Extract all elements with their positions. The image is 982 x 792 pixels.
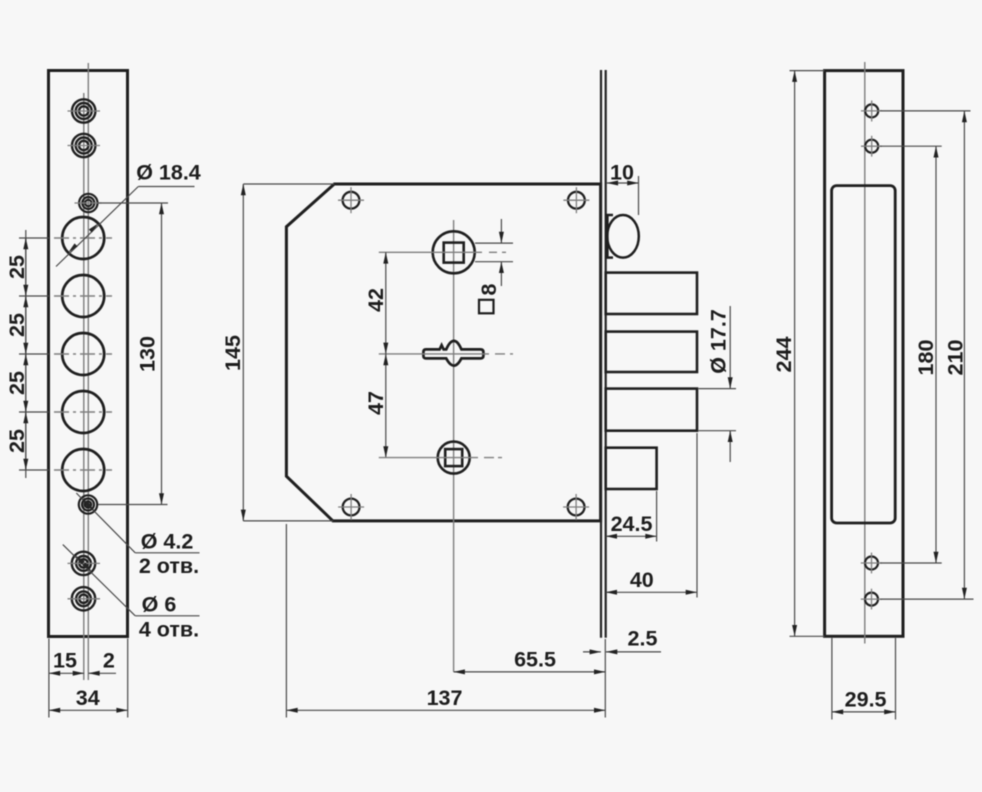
strike hole 1: [865, 104, 878, 117]
svg-text:25: 25: [5, 313, 29, 337]
svg-text:4 отв.: 4 отв.: [139, 618, 199, 642]
dimension 47: [385, 354, 387, 458]
svg-text:25: 25: [5, 371, 29, 395]
faceplate strip (edge view): [600, 70, 602, 638]
corner hole bottom-left: [343, 499, 360, 516]
svg-text:130: 130: [136, 336, 160, 372]
svg-text:Ø 6: Ø 6: [142, 593, 177, 617]
svg-text:25: 25: [5, 429, 29, 453]
dimension 180: [935, 146, 937, 563]
svg-text:2 отв.: 2 отв.: [139, 554, 199, 578]
leader O6: [63, 545, 135, 616]
strike plate outline: [825, 71, 903, 637]
screw hole O6 bottom2: [72, 587, 95, 610]
corner hole top-left: [343, 192, 360, 209]
bolt hole circle 5: [62, 449, 104, 491]
svg-text:137: 137: [427, 686, 463, 710]
square 8 dimension: [475, 242, 513, 244]
dimension 2: [88, 672, 116, 674]
dimension 40: [696, 433, 698, 598]
svg-text:65.5: 65.5: [514, 648, 556, 672]
svg-text:29.5: 29.5: [845, 688, 887, 712]
body vertical centerline: [453, 220, 455, 672]
dimension 130: [98, 202, 168, 204]
centerline A (screw holes axis): [83, 93, 85, 680]
svg-text:25: 25: [5, 255, 29, 279]
dimension 2.5: [604, 639, 606, 718]
strike hole 2: [865, 140, 878, 153]
spindle hole top: circle + square: [433, 231, 475, 273]
centerline B (4.2 holes axis): [87, 63, 89, 680]
svg-text:10: 10: [610, 161, 634, 185]
dimension 42: [385, 252, 387, 354]
svg-text:Ø 18.4: Ø 18.4: [136, 161, 201, 185]
extension lines right view: [880, 111, 974, 599]
lock body outline: [286, 184, 600, 521]
strike hole 4: [865, 593, 878, 606]
dimension 25 lines: [25, 230, 27, 478]
spindle hole bottom: circle + square: [438, 442, 470, 474]
svg-text:Ø 4.2: Ø 4.2: [141, 530, 194, 554]
dimension 137: [285, 524, 287, 718]
dimension 34: [49, 709, 128, 711]
hole O4.2 lower: [79, 495, 97, 513]
faceplate outline: [49, 71, 128, 637]
bolt hole circle 3: [62, 333, 104, 375]
svg-text:47: 47: [364, 391, 388, 415]
svg-text:145: 145: [221, 335, 245, 371]
screw hole O6 bottom1: [72, 552, 95, 575]
dimension 65.5: [454, 671, 606, 673]
svg-text:15: 15: [53, 649, 77, 673]
hole O4.2 upper: [79, 194, 97, 212]
dimension 145: [243, 183, 334, 185]
svg-text:40: 40: [630, 568, 654, 592]
strike plate centerline: [864, 62, 866, 644]
bolt hole circle 4: [62, 391, 104, 433]
bolt hole circle 1 O18.4: [62, 217, 104, 259]
deadbolt 2: [606, 332, 697, 372]
lower bolt: [606, 448, 657, 489]
leader O4.2: [76, 493, 135, 553]
svg-text:24.5: 24.5: [611, 512, 653, 536]
strike cutout: [832, 186, 896, 523]
dimension 29.5: [831, 638, 833, 720]
svg-text:Ø 17.7: Ø 17.7: [707, 309, 731, 374]
strike hole 3: [865, 557, 878, 570]
deadbolt 1: [606, 273, 697, 314]
dimension 210: [963, 111, 965, 599]
keyhole: [423, 341, 483, 366]
corner hole top-right: [568, 192, 585, 209]
svg-text:34: 34: [76, 686, 100, 710]
svg-text:2: 2: [103, 649, 115, 673]
screw hole O6 top2: [72, 134, 95, 157]
bolt hole circle 2: [62, 275, 104, 317]
svg-text:2.5: 2.5: [628, 627, 658, 651]
svg-text:180: 180: [914, 340, 938, 376]
latch bolt: [607, 215, 639, 258]
deadbolt 3: [606, 389, 697, 431]
dimension 244: [790, 70, 825, 72]
dimension O17.7: [699, 388, 737, 390]
dimension 25 chain extension lines: [19, 238, 49, 470]
svg-text:42: 42: [364, 288, 388, 312]
svg-text:210: 210: [944, 340, 968, 376]
bottom extension lines left view: [48, 639, 50, 718]
svg-text:244: 244: [772, 337, 796, 373]
dimension 15: [49, 672, 84, 674]
corner hole bottom-right: [568, 499, 585, 516]
svg-text:8: 8: [477, 283, 501, 295]
dimension 24.5: [656, 491, 658, 542]
screw hole O6 top1: [72, 99, 95, 122]
